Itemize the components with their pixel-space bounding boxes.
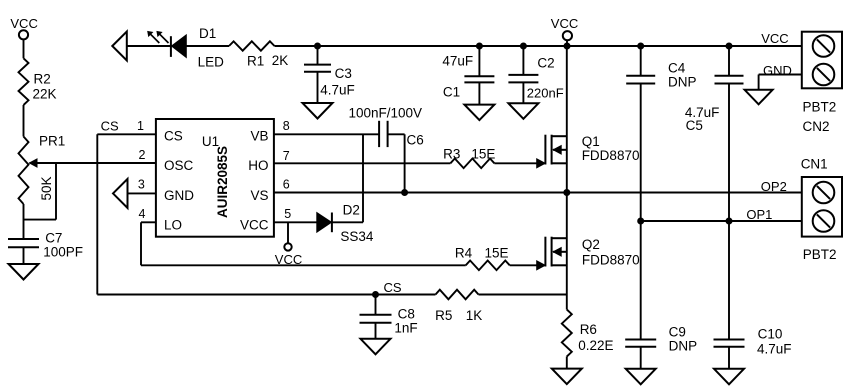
svg-text:LO: LO: [164, 217, 182, 232]
svg-text:1: 1: [137, 119, 144, 133]
svg-text:Q1: Q1: [582, 134, 600, 149]
svg-text:HO: HO: [248, 158, 268, 173]
svg-text:C10: C10: [758, 326, 783, 341]
svg-text:C9: C9: [669, 325, 686, 340]
svg-text:PBT2: PBT2: [803, 247, 837, 262]
svg-text:C1: C1: [443, 84, 460, 99]
svg-text:VB: VB: [250, 129, 268, 144]
svg-text:R3: R3: [443, 146, 460, 161]
svg-text:VS: VS: [250, 188, 268, 203]
svg-text:100PF: 100PF: [43, 245, 83, 260]
svg-text:1K: 1K: [466, 308, 483, 323]
svg-text:R5: R5: [435, 308, 452, 323]
svg-text:D2: D2: [343, 203, 360, 218]
svg-text:OSC: OSC: [164, 158, 194, 173]
svg-text:R4: R4: [455, 246, 473, 261]
svg-text:GND: GND: [763, 63, 792, 78]
svg-text:LED: LED: [198, 54, 225, 69]
svg-text:DNP: DNP: [668, 74, 697, 89]
svg-text:1nF: 1nF: [394, 320, 417, 335]
svg-text:OP1: OP1: [746, 207, 772, 222]
svg-text:C2: C2: [537, 55, 554, 70]
svg-text:4: 4: [139, 207, 146, 221]
svg-text:3: 3: [138, 178, 145, 192]
svg-text:22K: 22K: [33, 87, 57, 102]
svg-text:6: 6: [283, 178, 290, 192]
svg-text:C7: C7: [45, 231, 62, 246]
svg-text:R2: R2: [34, 72, 51, 87]
svg-text:2K: 2K: [272, 53, 289, 68]
svg-text:FDD8870: FDD8870: [582, 253, 640, 268]
svg-text:VCC: VCC: [761, 31, 788, 46]
svg-text:C3: C3: [335, 66, 352, 81]
svg-text:VCC: VCC: [275, 252, 302, 267]
svg-text:R6: R6: [580, 322, 597, 337]
svg-text:AUIR2085S: AUIR2085S: [215, 146, 230, 218]
svg-text:CN1: CN1: [801, 157, 828, 172]
svg-text:CS: CS: [101, 119, 119, 134]
svg-text:OP2: OP2: [761, 179, 787, 194]
svg-text:C6: C6: [407, 132, 424, 147]
svg-text:PBT2: PBT2: [803, 99, 837, 114]
svg-text:VCC: VCC: [551, 16, 578, 31]
svg-text:CN2: CN2: [803, 119, 830, 134]
svg-text:47uF: 47uF: [442, 53, 473, 68]
svg-text:SS34: SS34: [340, 229, 374, 244]
svg-text:4.7uF: 4.7uF: [757, 341, 792, 356]
svg-text:7: 7: [283, 149, 290, 163]
svg-text:4.7uF: 4.7uF: [320, 83, 355, 98]
svg-text:0.22E: 0.22E: [578, 338, 613, 353]
svg-text:PR1: PR1: [39, 134, 65, 149]
svg-text:GND: GND: [164, 188, 194, 203]
svg-text:5: 5: [284, 207, 291, 221]
svg-text:D1: D1: [199, 26, 216, 41]
svg-text:CS: CS: [164, 129, 183, 144]
svg-text:FDD8870: FDD8870: [582, 148, 640, 163]
svg-text:R1: R1: [247, 53, 264, 68]
svg-text:220nF: 220nF: [527, 86, 564, 101]
svg-text:15E: 15E: [471, 146, 495, 161]
svg-text:50K: 50K: [39, 176, 54, 200]
svg-text:2: 2: [139, 148, 146, 162]
svg-text:CS: CS: [384, 280, 402, 295]
svg-text:15E: 15E: [485, 246, 509, 261]
svg-text:VCC: VCC: [240, 217, 269, 232]
svg-text:C8: C8: [398, 306, 415, 321]
svg-text:Q2: Q2: [582, 237, 600, 252]
svg-text:DNP: DNP: [669, 338, 698, 353]
svg-text:8: 8: [283, 119, 290, 133]
svg-text:VCC: VCC: [10, 16, 37, 31]
svg-text:C5: C5: [686, 118, 703, 133]
svg-text:C4: C4: [668, 60, 686, 75]
svg-text:100nF/100V: 100nF/100V: [349, 106, 423, 121]
